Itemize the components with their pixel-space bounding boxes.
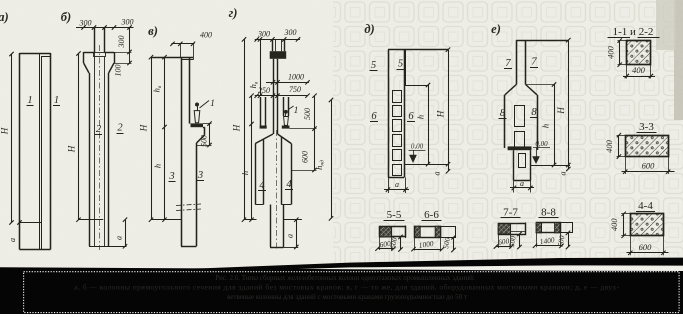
svg-text:а: а: [286, 234, 295, 238]
svg-text:3-3: 3-3: [639, 121, 654, 133]
svg-text:0,00: 0,00: [535, 140, 548, 148]
svg-text:7-7: 7-7: [503, 207, 518, 219]
column e shoulders: [505, 85, 517, 95]
section 4-4 extension lines: [630, 236, 632, 255]
column d outline: [388, 50, 390, 178]
section 1-1 vertical 400 dimension: [619, 41, 621, 65]
svg-text:в): в): [148, 24, 158, 38]
section 8-8 1400 dimension: [535, 245, 562, 247]
svg-text:Н: Н: [0, 127, 10, 135]
column g 1000 dimension line: [266, 82, 309, 84]
svg-text:г): г): [229, 6, 238, 20]
column v 500 dimension: [209, 124, 211, 145]
svg-text:а, б — колонны прямоугольного: а, б — колонны прямоугольного сечения дл…: [74, 283, 619, 292]
leader line detail 1 column v: [200, 101, 210, 109]
svg-text:400: 400: [200, 31, 212, 40]
column e foot slot: [519, 154, 526, 168]
column v 400 dimension line: [171, 43, 194, 45]
svg-text:600: 600: [639, 242, 653, 252]
column g flare: [255, 134, 273, 144]
column g h dimension line: [251, 96, 253, 220]
svg-text:4: 4: [259, 180, 265, 191]
svg-text:а: а: [115, 236, 124, 240]
column e H dimension line: [568, 40, 570, 169]
column a ground line: [20, 222, 42, 224]
svg-text:а: а: [559, 172, 568, 176]
column b head block: [84, 52, 94, 54]
column b embedment dimension: [125, 220, 127, 247]
column b top tip: [94, 28, 96, 53]
svg-text:1: 1: [294, 106, 299, 116]
column v H dimension line: [151, 57, 153, 220]
crane fastener symbol column g: [284, 110, 288, 114]
svg-text:3: 3: [168, 171, 174, 182]
caption black bar: [0, 267, 683, 314]
column g top dimension line: [255, 39, 300, 41]
svg-text:4-4: 4-4: [638, 200, 653, 212]
section 3-3 vertical 400 dimension: [618, 135, 620, 156]
column v upper right edge: [189, 57, 191, 123]
column g left branch: [255, 144, 257, 205]
crane fastener symbol column v: [195, 103, 199, 107]
svg-text:100: 100: [114, 65, 123, 77]
column g ground line: [244, 219, 257, 221]
column g hn dimension line: [331, 100, 333, 218]
svg-text:2: 2: [96, 124, 102, 135]
section 5-5 500 dimension: [400, 237, 402, 250]
section 4-4 vertical 400 dimension: [623, 214, 625, 236]
column g right branch: [281, 137, 283, 205]
right crane pad column g: [282, 126, 290, 129]
svg-text:600: 600: [642, 160, 656, 170]
column d floor line: [404, 164, 448, 166]
svg-text:1: 1: [54, 95, 59, 106]
svg-text:1: 1: [27, 95, 32, 106]
crane rail pad column v: [191, 123, 204, 127]
column v bottom cap: [181, 246, 197, 248]
section 8-8 500 dimension: [568, 233, 570, 247]
column e h dimension line: [554, 85, 556, 166]
svg-text:ветвевые колонны для зданий с: ветвевые колонны для зданий с мостовыми …: [227, 293, 467, 301]
svg-text:а: а: [395, 180, 399, 189]
bleed-through pattern right half: [333, 0, 683, 263]
column v dim extension lines: [180, 44, 182, 57]
section 8-8 shape: [537, 223, 561, 233]
section 1-1 horizontal 400 dimension: [623, 76, 655, 78]
column g embedment dimension: [296, 220, 298, 247]
left crane pad column g: [260, 126, 267, 129]
section 1-1 extension lines: [626, 65, 628, 79]
column a outline: [20, 53, 51, 55]
svg-text:4: 4: [286, 179, 292, 190]
svg-text:а: а: [520, 179, 524, 188]
column v lower right edge: [196, 143, 198, 246]
column e foundation plate: [508, 146, 532, 150]
svg-text:500: 500: [200, 135, 209, 147]
section 7-7 600 dimension: [496, 246, 512, 248]
svg-text:7: 7: [531, 57, 537, 68]
svg-text:6: 6: [371, 111, 377, 122]
column b taper: [84, 63, 89, 73]
column v left edge: [181, 57, 183, 246]
column g upper shaft: [273, 59, 275, 134]
svg-text:е): е): [491, 22, 501, 36]
column d H dimension line: [448, 50, 450, 172]
section 4-4 rectangle: [631, 214, 664, 236]
svg-text:400: 400: [606, 45, 616, 59]
column e body: [504, 95, 506, 148]
column b bottom line: [89, 246, 127, 248]
svg-text:б): б): [61, 10, 71, 24]
svg-text:Н: Н: [436, 110, 446, 118]
column g H dimension line: [244, 39, 246, 219]
svg-text:300: 300: [117, 36, 126, 49]
svg-text:Н: Н: [232, 124, 242, 132]
section 3-3 extension lines: [625, 157, 627, 174]
section 1-1 square: [627, 41, 651, 65]
column b shaft: [89, 73, 91, 246]
leader line detail 1 column g: [288, 106, 293, 110]
figure frame bottom edge: [140, 258, 683, 273]
svg-text:8: 8: [531, 107, 537, 118]
svg-text:а: а: [433, 172, 442, 176]
svg-text:300: 300: [257, 29, 270, 38]
svg-text:д): д): [364, 22, 374, 36]
column e body slots: [515, 106, 525, 127]
svg-text:250: 250: [258, 86, 270, 95]
svg-text:6: 6: [408, 111, 414, 122]
svg-text:5-5: 5-5: [387, 209, 402, 221]
svg-text:600: 600: [301, 151, 310, 163]
column v h dimension line: [164, 57, 166, 220]
column a H dimension line: [11, 54, 13, 223]
svg-text:1-1 и 2-2: 1-1 и 2-2: [613, 26, 654, 38]
svg-text:400: 400: [604, 139, 614, 153]
svg-text:0,00: 0,00: [411, 143, 424, 151]
column g joint plate: [270, 51, 287, 59]
column b right 300 dimension: [129, 28, 131, 53]
svg-text:750: 750: [289, 85, 301, 94]
column e foot: [513, 150, 515, 180]
svg-text:5: 5: [371, 60, 376, 71]
column g hv dimension line: [260, 39, 262, 95]
column g right crane leg: [283, 97, 285, 116]
column b centerline: [99, 45, 101, 250]
column g left crane leg: [260, 97, 262, 126]
svg-text:500: 500: [303, 108, 312, 120]
right edge gray streak: [674, 0, 683, 120]
svg-text:Н: Н: [556, 107, 566, 115]
section 5-5 shape: [380, 227, 406, 237]
svg-text:1: 1: [210, 99, 215, 109]
svg-text:1000: 1000: [288, 73, 304, 82]
svg-text:h: h: [153, 164, 163, 168]
section 7-7 shape: [499, 224, 526, 235]
svg-text:Рис. 2.6. Типы сборных железоб: Рис. 2.6. Типы сборных железобетонных ко…: [215, 274, 475, 282]
svg-text:7: 7: [505, 58, 511, 69]
section 3-3 horizontal 600 dimension: [622, 171, 675, 173]
svg-text:h: h: [416, 115, 426, 119]
svg-text:Н: Н: [67, 145, 77, 153]
column v break lines: [176, 204, 201, 206]
svg-text:400: 400: [609, 218, 619, 232]
svg-text:300: 300: [79, 19, 92, 28]
svg-text:300: 300: [284, 28, 297, 37]
svg-text:400: 400: [632, 65, 646, 75]
column d bottom dimension: [388, 178, 390, 194]
column v top line: [151, 57, 193, 59]
svg-text:8-8: 8-8: [541, 207, 556, 219]
column g centerline: [276, 130, 278, 250]
section 7-7 500 dimension: [519, 234, 521, 247]
section 5-5 600 dimension: [378, 248, 394, 250]
svg-text:h: h: [541, 124, 551, 128]
section 6-6 1000 dimension: [414, 249, 443, 251]
column d h dimension line: [428, 85, 430, 164]
column g top tip: [272, 39, 274, 51]
caption dotted border: [24, 272, 680, 313]
column v corbel: [203, 127, 205, 129]
svg-text:Н: Н: [139, 124, 149, 132]
column b ground line: [79, 219, 104, 221]
column b top dimension line: [76, 27, 134, 29]
section 3-3 rectangle: [626, 136, 669, 157]
svg-text:8: 8: [500, 108, 506, 119]
svg-text:h: h: [240, 171, 250, 175]
column d openings: [393, 91, 402, 103]
svg-text:6-6: 6-6: [424, 209, 439, 221]
section 6-6 shape: [415, 227, 441, 238]
svg-text:5: 5: [398, 59, 403, 70]
column d neck step: [405, 50, 407, 85]
column v ground line: [151, 219, 181, 221]
column e bottom dimension: [513, 180, 515, 192]
svg-text:3: 3: [197, 170, 203, 181]
column e top tip: [516, 40, 518, 84]
section 6-6 500 dimension: [453, 237, 455, 250]
column b joint detail: [94, 53, 106, 57]
column g foot: [270, 205, 272, 248]
section 4-4 horizontal 600 dimension: [627, 252, 669, 254]
column g 250 750 dimension line: [255, 95, 308, 97]
column b H dimension line: [78, 54, 80, 220]
svg-text:300: 300: [121, 18, 134, 27]
column g right dimension line 500 600: [314, 96, 316, 170]
svg-text:2: 2: [117, 123, 123, 134]
svg-text:а: а: [8, 238, 17, 242]
column e floor line: [530, 165, 570, 167]
column a inner face lines: [39, 53, 41, 250]
